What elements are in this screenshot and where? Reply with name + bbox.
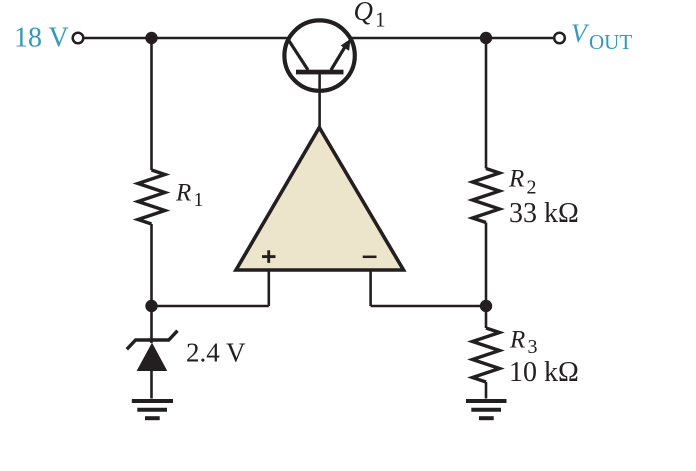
node: left bottom junction: [145, 300, 157, 312]
svg-text:R: R: [175, 180, 191, 207]
svg-text:18 V: 18 V: [14, 23, 69, 54]
svg-text:33 kΩ: 33 kΩ: [509, 198, 579, 229]
resistor R1: [138, 170, 165, 224]
svg-text:R: R: [509, 327, 525, 354]
op-amp − input marker: [363, 256, 377, 259]
svg-text:2: 2: [527, 177, 537, 199]
wire op-amp − input stub: [369, 270, 372, 306]
label 18 V: [14, 23, 69, 54]
svg-text:1: 1: [375, 8, 386, 32]
wire bottom right horizontal (op-amp − input to right junction): [371, 305, 486, 308]
ground (right): [466, 401, 507, 418]
wire top rail right: transistor emitter to output terminal: [351, 37, 553, 40]
wire top rail left: input terminal to transistor collector: [84, 37, 288, 40]
output terminal VOUT (open circle): [554, 33, 565, 44]
wire zener to ground: [150, 371, 153, 399]
wire right vertical upper (top rail to R2): [485, 38, 488, 169]
wire op-amp + input stub: [267, 270, 270, 306]
wire right vertical lower (R2 to right bottom junction): [485, 223, 488, 307]
svg-text:R: R: [508, 166, 524, 193]
node: right top junction: [480, 32, 492, 44]
wire R3 to ground: [485, 382, 488, 399]
zener diode D1 2.4 V: [127, 331, 178, 371]
input terminal 18 V (open circle): [73, 33, 84, 44]
wire transistor base to op-amp output: [318, 74, 321, 129]
svg-text:3: 3: [528, 336, 538, 358]
wire left junction to zener: [150, 306, 153, 343]
resistor R2: [473, 169, 500, 223]
label 10 kΩ: [509, 357, 579, 388]
svg-text:Q: Q: [354, 0, 374, 26]
label 33 kΩ: [509, 198, 579, 229]
label R3: [509, 327, 538, 359]
label R1: [175, 180, 204, 212]
transistor Q1: [284, 20, 354, 90]
wire left vertical lower (R1 to bottom junction): [150, 224, 153, 306]
label 2.4 V: [186, 337, 246, 367]
label Q1: [354, 0, 386, 32]
label VOUT: [571, 19, 632, 54]
node: right bottom junction: [480, 300, 492, 312]
wire left vertical upper (top rail to R1): [150, 38, 153, 170]
wire junction to R3: [485, 306, 488, 328]
wire bottom left horizontal (junction to op-amp + input): [152, 305, 269, 308]
op-amp U1 (triangle, output at top apex): [236, 128, 404, 271]
label R2: [508, 166, 537, 199]
svg-text:2.4 V: 2.4 V: [186, 337, 246, 367]
op-amp + input marker: [262, 250, 276, 263]
svg-text:1: 1: [194, 189, 204, 211]
node: left top junction: [145, 32, 157, 44]
svg-text:OUT: OUT: [589, 30, 632, 54]
svg-text:10 kΩ: 10 kΩ: [509, 357, 579, 388]
resistor R3: [473, 328, 500, 382]
ground (left): [132, 401, 173, 418]
